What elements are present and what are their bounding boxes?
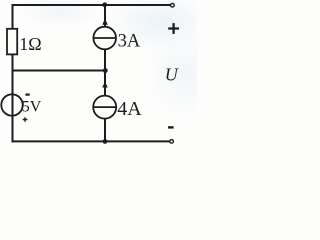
current source 3A (circle with bar): [93, 27, 140, 52]
polarity minus (top): [25, 94, 29, 96]
svg-text:5V: 5V: [22, 99, 42, 116]
resistor R 1ohm: [7, 29, 42, 55]
minus sign bottom right: [168, 126, 174, 128]
voltage source 5V: [1, 94, 42, 122]
terminal top right: [171, 3, 175, 7]
arrow current direction 4A (up): [102, 82, 108, 88]
arrow current direction 3A (up): [102, 19, 108, 25]
svg-text:1Ω: 1Ω: [19, 34, 41, 54]
junction node bottom: [103, 139, 108, 144]
current source 4A (circle with bar): [93, 96, 142, 120]
svg-text:4A: 4A: [117, 98, 142, 120]
wire top (node A to terminal): [13, 4, 171, 6]
junction node top: [102, 2, 107, 7]
polarity plus (bottom): [23, 117, 28, 122]
wire middle connecting left branch to node B: [13, 70, 106, 72]
wire middle branch vertical: [104, 5, 106, 27]
svg-text:3A: 3A: [118, 32, 141, 52]
wire bottom: [13, 140, 170, 142]
wire left (x=12.7): [12, 5, 14, 141]
junction node middle: [103, 68, 108, 73]
terminal bottom right: [170, 140, 174, 144]
svg-text:U: U: [165, 64, 179, 84]
plus sign top right: [168, 23, 179, 34]
